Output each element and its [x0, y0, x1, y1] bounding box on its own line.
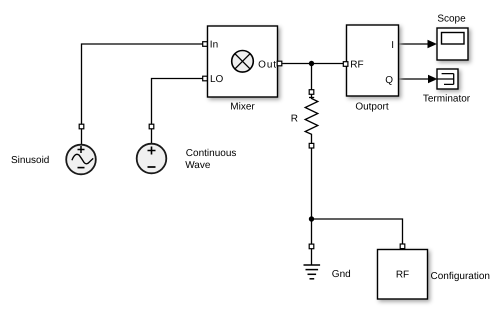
svg-text:I: I	[391, 40, 394, 51]
svg-text:Q: Q	[385, 75, 393, 86]
svg-text:In: In	[210, 40, 218, 51]
svg-text:Gnd: Gnd	[332, 269, 351, 280]
svg-text:Out: Out	[258, 60, 277, 71]
svg-text:Wave: Wave	[185, 160, 211, 171]
svg-text:Mixer: Mixer	[230, 102, 255, 113]
svg-text:Sinusoid: Sinusoid	[11, 155, 49, 166]
svg-text:Continuous: Continuous	[186, 148, 237, 159]
svg-text:LO: LO	[210, 74, 224, 85]
svg-text:Configuration: Configuration	[431, 271, 490, 282]
svg-text:RF: RF	[350, 60, 363, 71]
svg-text:Scope: Scope	[437, 14, 466, 25]
svg-text:RF: RF	[396, 270, 409, 281]
svg-text:Terminator: Terminator	[423, 94, 471, 105]
svg-text:Outport: Outport	[355, 102, 389, 113]
svg-text:R: R	[291, 114, 298, 125]
